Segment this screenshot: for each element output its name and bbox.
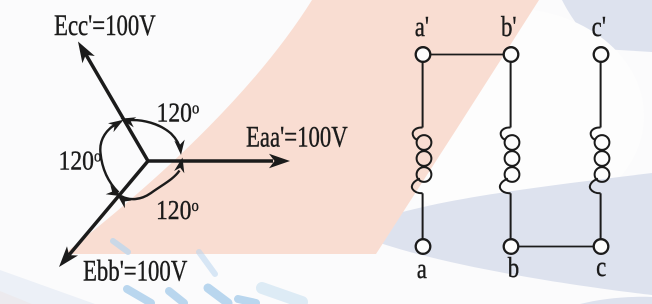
- svg-text:b: b: [508, 251, 519, 283]
- svg-text:Ecc'=100V: Ecc'=100V: [54, 8, 156, 42]
- svg-text:Eaa'=100V: Eaa'=100V: [246, 119, 348, 153]
- svg-text:b': b': [501, 10, 517, 42]
- svg-text:c: c: [596, 250, 606, 282]
- svg-text:a': a': [415, 10, 429, 42]
- svg-text:c': c': [592, 10, 606, 42]
- svg-text:a: a: [417, 252, 428, 284]
- svg-text:Ebb'=100V: Ebb'=100V: [83, 253, 187, 287]
